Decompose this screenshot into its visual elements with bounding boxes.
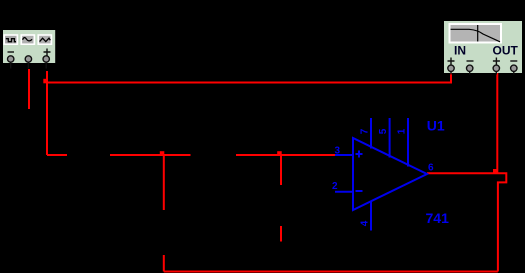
svg-text:4: 4	[359, 220, 370, 226]
svg-text:741: 741	[426, 210, 450, 226]
svg-text:3: 3	[335, 146, 341, 157]
svg-text:7: 7	[359, 128, 370, 134]
svg-text:U1: U1	[427, 118, 445, 134]
svg-text:IN: IN	[454, 44, 466, 58]
svg-text:OUT: OUT	[493, 44, 519, 58]
svg-text:2: 2	[332, 181, 338, 192]
svg-text:1: 1	[396, 128, 407, 134]
svg-text:6: 6	[428, 163, 434, 174]
svg-text:5: 5	[378, 128, 389, 134]
